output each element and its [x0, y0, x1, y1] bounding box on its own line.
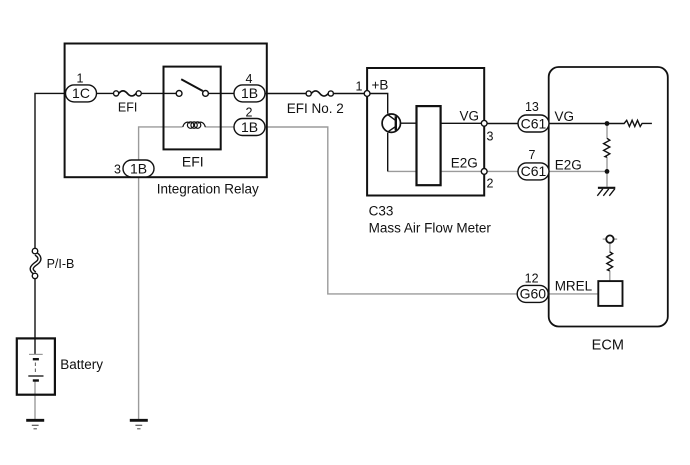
- svg-text:1B: 1B: [241, 85, 258, 101]
- svg-text:7: 7: [529, 148, 536, 162]
- svg-text:P/I-B: P/I-B: [47, 257, 75, 271]
- svg-text:Mass Air Flow Meter: Mass Air Flow Meter: [369, 220, 492, 235]
- svg-text:EFI No. 2: EFI No. 2: [287, 101, 344, 116]
- svg-text:1: 1: [356, 80, 363, 94]
- svg-text:1B: 1B: [241, 119, 258, 135]
- svg-text:12: 12: [525, 271, 539, 285]
- svg-text:2: 2: [246, 106, 253, 120]
- svg-text:Battery: Battery: [60, 357, 103, 372]
- svg-text:3: 3: [114, 163, 121, 177]
- svg-text:+B: +B: [372, 78, 389, 93]
- svg-text:1: 1: [77, 72, 84, 86]
- svg-text:ECM: ECM: [592, 337, 624, 353]
- svg-text:13: 13: [525, 100, 539, 114]
- svg-text:EFI: EFI: [118, 101, 137, 115]
- svg-text:C61: C61: [521, 115, 547, 131]
- svg-text:1C: 1C: [72, 85, 90, 101]
- svg-text:C61: C61: [521, 163, 547, 179]
- svg-text:4: 4: [246, 72, 253, 86]
- svg-text:VG: VG: [460, 109, 480, 124]
- svg-text:MREL: MREL: [555, 278, 593, 293]
- svg-text:E2G: E2G: [451, 156, 478, 171]
- svg-text:EFI: EFI: [182, 154, 204, 170]
- svg-text:Integration Relay: Integration Relay: [157, 181, 259, 196]
- svg-text:1B: 1B: [130, 160, 147, 176]
- svg-text:2: 2: [487, 176, 494, 190]
- svg-text:E2G: E2G: [555, 158, 582, 173]
- svg-text:C33: C33: [369, 204, 394, 219]
- svg-text:VG: VG: [555, 109, 575, 124]
- svg-text:G60: G60: [520, 286, 547, 302]
- svg-text:3: 3: [487, 130, 494, 144]
